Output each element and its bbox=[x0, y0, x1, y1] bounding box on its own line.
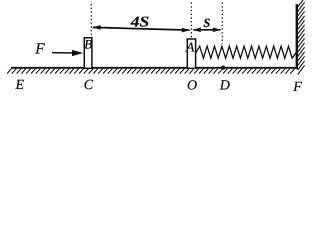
svg-text:A: A bbox=[185, 40, 195, 55]
dimension arrow 4S right head bbox=[182, 28, 190, 33]
spring bbox=[196, 46, 297, 58]
ground hatching bbox=[7, 69, 295, 74]
dotted line above A bbox=[190, 3, 192, 39]
dimension arrow S shaft bbox=[193, 29, 220, 31]
dotted line above D bbox=[221, 3, 223, 45]
dotted line above B bbox=[90, 4, 92, 37]
svg-text:D: D bbox=[219, 79, 230, 94]
svg-text:S: S bbox=[203, 16, 210, 30]
dimension arrow 4S shaft bbox=[93, 27, 190, 30]
svg-text:O: O bbox=[187, 79, 197, 94]
ground line bbox=[11, 67, 298, 69]
force arrow F shaft bbox=[52, 52, 74, 54]
force arrow F head bbox=[72, 50, 83, 56]
svg-text:B: B bbox=[84, 37, 92, 52]
dimension arrow S right head bbox=[213, 28, 221, 33]
block A bbox=[187, 39, 195, 68]
dimension arrow S left head bbox=[193, 28, 201, 33]
wall hatching bbox=[298, 0, 305, 74]
dimension arrow 4S left head bbox=[92, 25, 100, 30]
svg-text:E: E bbox=[15, 78, 25, 93]
svg-text:F: F bbox=[292, 80, 302, 95]
svg-text:C: C bbox=[84, 78, 94, 93]
svg-text:4S: 4S bbox=[130, 15, 150, 31]
wall bbox=[296, 4, 298, 69]
point D dot bbox=[221, 66, 225, 70]
svg-text:F: F bbox=[34, 41, 45, 58]
block B bbox=[84, 38, 92, 69]
